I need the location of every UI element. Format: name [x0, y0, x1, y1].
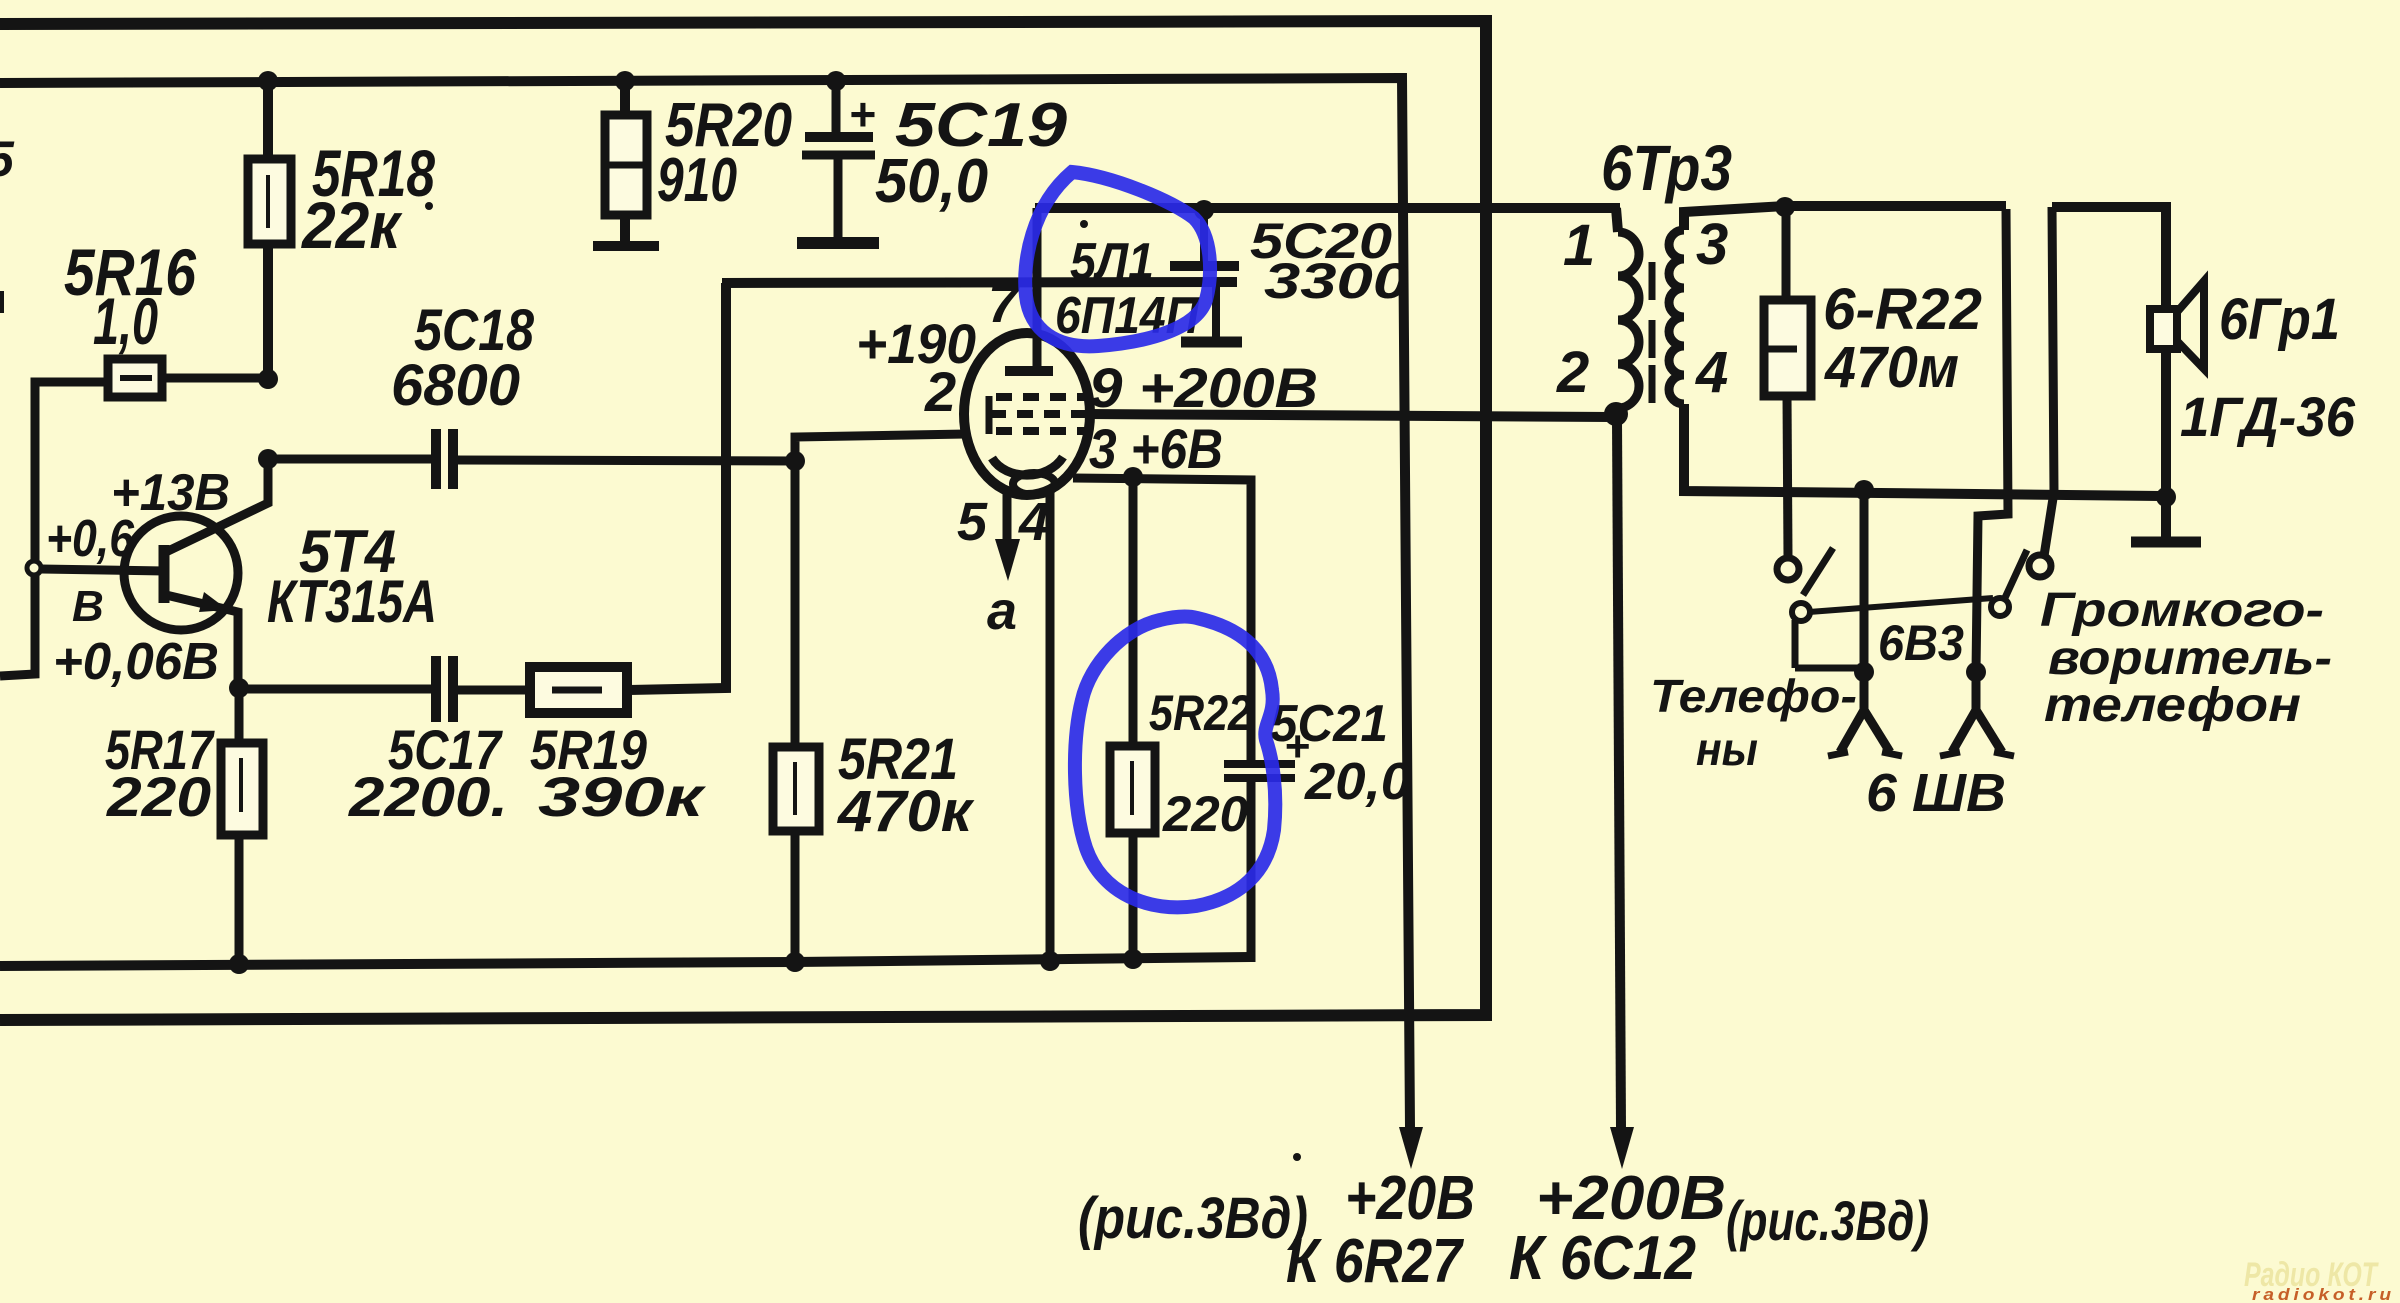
resistor 5R19 body	[530, 667, 627, 713]
node dot collector/5R16	[258, 369, 278, 389]
wire 5R16 left + down to base node	[35, 382, 108, 561]
svg-text:5Л1: 5Л1	[1070, 233, 1154, 291]
wire 5C21 to ground bus corner	[1247, 778, 1256, 962]
node dot 6-R22 top	[1775, 197, 1795, 217]
wire node to 5C18	[268, 455, 431, 464]
wire pin 9 to transformer	[1088, 414, 1612, 417]
svg-text:5R22: 5R22	[1149, 685, 1252, 741]
svg-text:2200.: 2200.	[348, 765, 508, 828]
node blob primary bottom / pin9	[1604, 402, 1628, 426]
capacitor 5C20 stem bottom	[1212, 286, 1220, 338]
svg-text:К 6С12: К 6С12	[1509, 1224, 1696, 1293]
resistor 5R17 body	[221, 743, 263, 835]
wire pin 3 right	[1073, 478, 1251, 760]
wire L2 to 5R18	[263, 81, 273, 163]
capacitor 5C19 top plate	[805, 132, 873, 142]
node dot L2/5C19	[826, 71, 846, 91]
wire base node down and out left	[0, 575, 35, 676]
arrowhead +200V to 6C12	[1610, 1127, 1634, 1169]
capacitor 5C21 top plate	[1224, 760, 1295, 768]
wire ground bus A	[0, 957, 1251, 966]
svg-text:5: 5	[957, 492, 988, 552]
tube grid dashes row3	[996, 427, 1090, 435]
svg-text:+200В: +200В	[1536, 1164, 1726, 1233]
svg-text:910: 910	[657, 146, 737, 215]
svg-text:6В3: 6В3	[1878, 615, 1964, 671]
node dot speaker/bus	[2156, 487, 2176, 507]
wire supply bus L2 + V2 down to +20V arrow	[0, 78, 1410, 1128]
wire 5R16 right to node	[162, 374, 268, 383]
node dot anode wire / 5C20	[1194, 200, 1214, 220]
svg-text:1: 1	[1563, 213, 1595, 278]
capacitor 5C17 left plate	[431, 656, 441, 722]
wire ring B up to speaker bar	[2044, 207, 2054, 556]
node dot jack1 top	[1854, 480, 1874, 500]
wire 5C19 to ground	[834, 155, 843, 238]
resistor 5R20 middle line	[605, 162, 647, 169]
node dot 5C18 branch	[258, 449, 278, 469]
resistor 6-R22 body	[1764, 300, 1811, 396]
wire L2 to 5C19	[832, 81, 841, 132]
svg-text:5: 5	[0, 131, 15, 187]
wire 5R18 to node	[263, 244, 273, 381]
switch lever B	[2004, 550, 2027, 600]
switch bar	[1809, 598, 1993, 612]
transistor 5T4 base bar	[159, 545, 170, 603]
transformer core dash 2	[1649, 320, 1656, 358]
wire 5R21 to ground bus	[791, 831, 800, 963]
node ring base test point	[27, 561, 41, 575]
tube cathode curve	[992, 457, 1063, 475]
svg-text:470к: 470к	[837, 779, 975, 844]
wire 6-R22 top lead	[1782, 206, 1791, 302]
node dot heater/bus	[1040, 951, 1060, 971]
ground bar speaker	[2131, 537, 2201, 548]
switch ring A	[1777, 558, 1799, 580]
tube cathode loop	[1013, 473, 1055, 495]
svg-text:1,0: 1,0	[93, 284, 158, 358]
wire 5R22 to ground bus	[1129, 833, 1138, 960]
switch box left side	[1792, 620, 1799, 668]
wire grid node down to 5R21	[791, 461, 800, 749]
svg-text:6800: 6800	[391, 353, 520, 418]
transistor 5T4 emitter	[166, 595, 238, 688]
svg-text:7: 7	[988, 274, 1021, 334]
wire secondary bottom to bus	[1684, 404, 2166, 496]
capacitor 5C20 bottom bar	[1181, 337, 1242, 348]
transistor 5T4 envelope	[124, 516, 238, 630]
svg-text:1ГД-36: 1ГД-36	[2180, 385, 2356, 448]
tube heater pin 4 lead to ground bus	[1046, 490, 1055, 962]
arrowhead heater a	[995, 539, 1020, 581]
wire 5R19 right + up (feedback riser)	[627, 283, 726, 690]
fragment left wire stub	[0, 291, 4, 313]
svg-text:6 ШВ: 6 ШВ	[1866, 763, 2006, 823]
tube grid dashes row2	[990, 410, 1085, 418]
wire 5R17 to ground bus	[235, 835, 244, 964]
transformer primary top corner	[1616, 208, 1618, 232]
svg-text:(рис.3Вд): (рис.3Вд)	[1078, 1186, 1308, 1251]
svg-text:+190: +190	[856, 312, 976, 375]
wire anode bus from pin7 to primary	[1035, 203, 1620, 213]
svg-text:+20В: +20В	[1345, 1164, 1475, 1233]
wire B+ primary down to arrow	[1617, 420, 1621, 1128]
wire 5C17 to 5R19	[453, 686, 532, 695]
switch lever A	[1803, 548, 1833, 595]
resistor 5R21 inner mark	[793, 762, 797, 815]
svg-text:6-R22: 6-R22	[1823, 277, 1982, 342]
wire jack1 vertical	[1860, 490, 1869, 672]
ground bar under 5C19	[797, 237, 879, 249]
transformer secondary top corner	[1684, 206, 2006, 230]
switch box bottom	[1795, 665, 1861, 672]
tube grid dashes row1	[996, 393, 1085, 401]
switch contact donut B	[1991, 598, 2009, 616]
speck after 22к	[425, 202, 433, 210]
blue circle around 5R22 220	[1075, 617, 1275, 908]
blue circle around 5Л1 6П14П	[1025, 172, 1210, 346]
capacitor 5C17 right plate	[448, 656, 458, 722]
svg-text:220: 220	[106, 765, 211, 828]
speck above рис	[1293, 1153, 1301, 1161]
wire emitter node to 5R17	[235, 688, 244, 745]
svg-text:+0,6: +0,6	[46, 510, 135, 568]
wire jack2 feed zigzag	[1976, 209, 2008, 672]
node dot pin 3	[1123, 467, 1143, 487]
phone jack 2	[1952, 672, 1976, 752]
svg-text:2: 2	[924, 360, 956, 423]
resistor 6-R22 middle dash	[1768, 346, 1797, 353]
svg-text:+0,06В: +0,06В	[53, 633, 219, 691]
wire 6-R22 bottom to switch ring A	[1787, 396, 1788, 556]
svg-text:3 +6В: 3 +6В	[1089, 417, 1223, 480]
tube heater pin 5 lead	[1003, 492, 1012, 540]
wire grid node up to tube pin 2	[795, 434, 966, 461]
node dot 5R17/bus	[229, 954, 249, 974]
resistor 5R16 body	[108, 359, 162, 397]
wire outer box: top bus L1 + right vertical + bottom bus	[0, 21, 1486, 1020]
transformer secondary winding	[1669, 230, 1684, 404]
wire speaker bottom	[2161, 349, 2171, 497]
capacitor 5C21 bottom plate	[1224, 774, 1295, 782]
resistor 5R18 body	[248, 159, 291, 244]
tube anode lead pin 7	[1033, 208, 1042, 368]
svg-text:radiokot.ru: radiokot.ru	[2252, 1285, 2395, 1303]
svg-text:2: 2	[1556, 340, 1589, 405]
svg-text:телефон: телефон	[2044, 679, 2301, 732]
svg-text:КТ315А: КТ315А	[267, 568, 437, 635]
node dot L2/5R18	[258, 71, 278, 91]
svg-text:4: 4	[1018, 492, 1049, 552]
svg-text:22к: 22к	[300, 188, 403, 262]
capacitor 5C19 bottom plate	[802, 151, 875, 160]
svg-text:470м: 470м	[1824, 335, 1959, 400]
transformer primary winding	[1618, 232, 1639, 408]
node dot grid (pin2) junction	[785, 451, 805, 471]
svg-text:6Тр3: 6Тр3	[1601, 132, 1732, 204]
node dot jack2	[1966, 662, 1986, 682]
svg-text:20,0: 20,0	[1304, 753, 1411, 811]
resistor 5R17 inner mark	[239, 758, 243, 812]
capacitor 5C18 left plate	[431, 429, 441, 489]
capacitor 5C20 top plate	[1170, 261, 1239, 271]
switch ring B	[2029, 555, 2051, 577]
resistor 5R20 body	[605, 115, 647, 215]
svg-text:3300: 3300	[1264, 253, 1409, 309]
wire feedback top to 5C20 bottom plate	[722, 282, 1237, 283]
transistor 5T4 collector	[166, 459, 268, 552]
node dot jack1	[1854, 662, 1874, 682]
transformer core dash 3	[1649, 365, 1656, 403]
switch contact donut A	[1792, 603, 1810, 621]
node dot 5R21/bus	[785, 952, 805, 972]
wire speaker top bar	[2052, 207, 2166, 310]
wire speaker to ground	[2161, 497, 2171, 537]
node dot emitter junction	[229, 678, 249, 698]
node dot L2/5R20	[615, 71, 635, 91]
wire L2 to 5R20	[620, 81, 630, 118]
svg-text:(рис.3Вд): (рис.3Вд)	[1726, 1189, 1929, 1252]
wire 5C18 to grid node	[453, 460, 795, 461]
arrowhead +20V to 6R27	[1399, 1127, 1423, 1169]
resistor 5R18 inner mark	[266, 175, 270, 228]
tube 5Л1 envelope	[964, 333, 1090, 495]
resistor 5R21 body	[773, 747, 819, 831]
ground bar under 5R20	[593, 241, 659, 251]
svg-text:50,0: 50,0	[875, 147, 988, 216]
tube grid left connector	[986, 396, 993, 434]
wire base to transistor	[41, 569, 165, 571]
svg-text:К 6R27: К 6R27	[1286, 1227, 1464, 1296]
phone jack 1	[1840, 672, 1864, 752]
svg-text:6Гр1: 6Гр1	[2219, 287, 2340, 352]
capacitor 5C20 stem top	[1200, 210, 1208, 265]
svg-text:4: 4	[1695, 340, 1728, 405]
svg-text:220: 220	[1162, 786, 1248, 842]
svg-text:Громкого-: Громкого-	[2040, 584, 2324, 637]
svg-text:В: В	[72, 582, 104, 631]
resistor 5R16 inner dash	[120, 375, 152, 381]
svg-text:5С21: 5С21	[1270, 695, 1388, 753]
svg-text:Телефо-: Телефо-	[1650, 670, 1857, 722]
svg-text:воритель-: воритель-	[2048, 632, 2332, 685]
resistor 5R22 inner mark	[1130, 761, 1134, 815]
resistor 5R19 inner dash	[552, 687, 602, 694]
tube anode plate bar	[1005, 366, 1053, 376]
capacitor 5C18 right plate	[448, 429, 458, 489]
svg-text:ны: ны	[1696, 723, 1758, 775]
wire 5R20 to ground	[620, 215, 630, 244]
transistor 5T4 emitter arrow	[199, 592, 228, 612]
speaker 6Гр1 horn	[2177, 281, 2204, 369]
svg-text:а: а	[987, 581, 1017, 641]
transformer core dash 1	[1649, 262, 1656, 300]
speaker 6Гр1 box	[2150, 309, 2177, 349]
svg-text:390к: 390к	[538, 765, 707, 828]
wire emitter node to 5C17	[239, 685, 431, 694]
node dot 5R22/bus	[1123, 949, 1143, 969]
speck above 5Л1	[1080, 220, 1088, 228]
wire pin3 node down to 5R22	[1129, 477, 1138, 748]
resistor 5R22 body	[1110, 746, 1155, 833]
svg-text:3: 3	[1696, 212, 1728, 277]
